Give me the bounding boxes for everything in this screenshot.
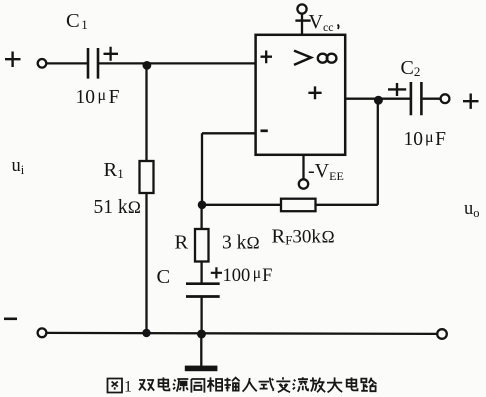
wire to op-amp inverting input [202, 132, 256, 134]
capacitor C1 [88, 48, 98, 79]
svg-text:Vcc: Vcc [309, 11, 334, 34]
svg-text:10μF: 10μF [76, 87, 120, 108]
ground stem [200, 333, 202, 366]
op-amp gain symbol > [294, 51, 311, 65]
svg-text:RF30kΩ: RF30kΩ [272, 226, 335, 248]
wire node B to C2 [378, 98, 410, 100]
svg-text:51 kΩ: 51 kΩ [94, 197, 142, 218]
svg-text:1: 1 [124, 379, 132, 396]
wire R1 to ground rail [145, 193, 147, 333]
node C junction [198, 201, 207, 210]
speck comma [338, 25, 339, 30]
ground rail wire [47, 333, 438, 334]
wire R to capacitor C [200, 262, 202, 284]
Vcc polarity + crossing wire [295, 19, 310, 21]
svg-text:R: R [175, 232, 189, 254]
rail junction at R1 [142, 329, 150, 337]
left bottom terminal [38, 328, 47, 337]
capacitor C2 plates [411, 82, 422, 115]
wire C2 to output terminal [423, 98, 441, 100]
caption: figure 1 dual-supply noninverting-input AC amplifier circuit [108, 377, 377, 395]
svg-text:10μF: 10μF [404, 129, 447, 150]
capacitor C plates [186, 284, 220, 297]
capacitor C1 polarity + [104, 47, 119, 61]
svg-text:-VEE: -VEE [308, 160, 344, 183]
capacitor C2 polarity + [388, 83, 406, 96]
input minus polarity mark [4, 317, 17, 320]
resistor R body [195, 229, 209, 262]
wire op-amp output to node B [345, 98, 378, 100]
wire node C down to R [200, 205, 202, 229]
wire C1 to node A [99, 62, 147, 64]
output terminal [441, 94, 450, 103]
capacitor C polarity + [211, 267, 222, 278]
op-amp output + mark [308, 86, 321, 99]
svg-text:C: C [157, 266, 171, 288]
input plus polarity mark [5, 52, 21, 68]
wire RF to node C [202, 204, 281, 206]
svg-text:ui: ui [12, 156, 25, 177]
op-amp U1 box [256, 35, 346, 155]
ground symbol bar [185, 366, 218, 372]
resistor RF body [281, 199, 316, 212]
op-amp noninverting + mark [261, 51, 273, 64]
svg-text:100μF: 100μF [223, 265, 273, 286]
Vcc terminal [297, 4, 306, 13]
wire node A to op-amp noninverting input [147, 62, 255, 64]
svg-text:R1: R1 [104, 159, 124, 181]
input terminal top-left [38, 59, 47, 68]
node B junction [374, 96, 383, 105]
op-amp gain symbol infinity [318, 54, 337, 63]
wire input terminal to C1 [47, 62, 87, 64]
wire node A down to R1 [145, 64, 147, 161]
wire C to ground rail [200, 297, 202, 334]
output plus polarity mark [463, 94, 479, 109]
svg-text:C2: C2 [401, 57, 421, 79]
wire Vcc terminal to op-amp [301, 14, 303, 35]
wire node B down feedback [377, 99, 379, 205]
svg-text:uo: uo [464, 199, 480, 220]
wire feedback to RF [316, 204, 378, 206]
resistor R1 body [140, 161, 154, 193]
wire op-amp to -VEE terminal [302, 155, 304, 180]
svg-text:3 kΩ: 3 kΩ [222, 233, 260, 254]
rail junction at ground stem [197, 330, 206, 339]
svg-text:C1: C1 [66, 10, 88, 32]
op-amp inverting - mark [261, 129, 268, 132]
right bottom terminal [437, 329, 447, 339]
wire node C up [201, 133, 203, 205]
-VEE terminal [299, 179, 308, 188]
node A junction [143, 61, 152, 70]
